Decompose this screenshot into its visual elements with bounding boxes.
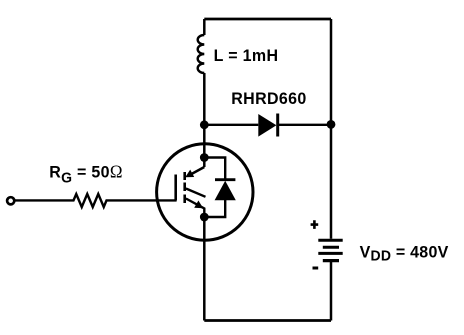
svg-text:RG = 50Ω: RG = 50Ω <box>49 161 122 187</box>
svg-text:L = 1mH: L = 1mH <box>214 47 279 66</box>
svg-text:VDD = 480V: VDD = 480V <box>360 243 449 265</box>
svg-text:RHRD660: RHRD660 <box>231 89 306 108</box>
